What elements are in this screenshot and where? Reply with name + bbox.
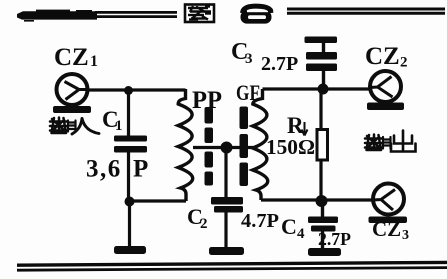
- svg-text:1: 1: [90, 53, 98, 70]
- core of PP coil (dashed bar): [205, 107, 214, 186]
- wire: middle coupling rail: [193, 146, 254, 149]
- capacitor C4: [308, 203, 338, 249]
- wire: bottom right rail: [261, 198, 372, 201]
- label R1: [287, 113, 308, 138]
- svg-text:150Ω: 150Ω: [266, 135, 315, 159]
- label C2: [187, 204, 208, 232]
- svg-text:C: C: [281, 214, 297, 239]
- wire: CZ1 to PP top: [88, 88, 186, 91]
- figure title rule right: [287, 9, 445, 13]
- node: junction dot bottom left: [125, 197, 135, 207]
- node: junction dot top right: [318, 84, 329, 95]
- inductor GF coil: [253, 89, 268, 200]
- label CZ3: [372, 217, 409, 243]
- label CZ2: [365, 43, 408, 71]
- svg-text:2.7P: 2.7P: [318, 229, 351, 249]
- svg-text:P: P: [133, 156, 148, 183]
- figure title box (图): [185, 5, 214, 23]
- svg-text:4.7P: 4.7P: [241, 210, 279, 232]
- wire: C1 lower stem: [127, 151, 130, 200]
- svg-text:CZ: CZ: [372, 217, 401, 241]
- label C3: [231, 39, 253, 67]
- wire: bottom left rail to PP coil: [130, 199, 187, 202]
- capacitor C1: [114, 136, 147, 153]
- bottom frame rules: [17, 262, 447, 270]
- label C4: [281, 214, 305, 242]
- svg-text:2: 2: [400, 55, 408, 71]
- capacitor C2: [211, 197, 243, 213]
- node: junction dot middle: [221, 142, 233, 154]
- svg-text:4: 4: [297, 226, 305, 242]
- connector CZ3: [369, 184, 408, 224]
- svg-text:CZ: CZ: [365, 43, 400, 70]
- connector CZ1: [53, 74, 91, 113]
- node: junction dot at C1 top: [124, 86, 133, 95]
- wire: C2 lower stem: [224, 212, 227, 248]
- wire: C2 upper stem: [224, 150, 227, 197]
- ground bar under C1 junction: [114, 246, 146, 254]
- label C1: [102, 107, 123, 134]
- resistor R1: [317, 91, 328, 200]
- svg-text:3: 3: [402, 228, 409, 243]
- svg-text:3: 3: [245, 51, 253, 67]
- ground bar under C4: [308, 248, 341, 256]
- label 3,6P value of C1: [86, 156, 148, 183]
- label CZ1: [54, 44, 98, 71]
- figure title rule left: [17, 10, 177, 22]
- svg-text:CZ: CZ: [54, 44, 89, 71]
- svg-text:2.7P: 2.7P: [261, 53, 298, 75]
- connector CZ2: [367, 71, 404, 110]
- svg-text:3,6: 3,6: [86, 156, 122, 183]
- wire: GF top to CZ2: [263, 87, 370, 90]
- wire: C1 upper stem: [127, 92, 130, 137]
- capacitor C3 (trimmer): [305, 37, 338, 88]
- ground bar under C2: [209, 247, 244, 255]
- inductor PP coil: [178, 89, 192, 201]
- figure title number 6: [241, 6, 272, 24]
- node: junction dot bottom right: [316, 195, 328, 207]
- wire: drop to ground from bottom left junction: [128, 204, 131, 247]
- svg-text:1: 1: [115, 118, 123, 134]
- core of GF coil (dashed bar): [240, 107, 249, 187]
- svg-text:2: 2: [200, 216, 208, 232]
- label 输出 (output): [365, 131, 416, 152]
- label 输入 (input): [50, 118, 99, 135]
